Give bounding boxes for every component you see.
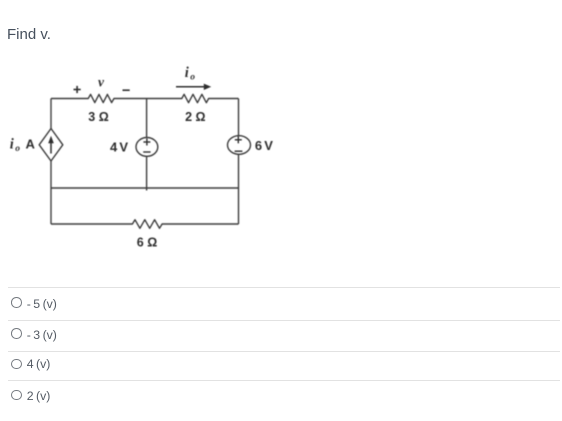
svg-text:3 Ω: 3 Ω [88, 110, 108, 124]
svg-text:6 V: 6 V [255, 138, 273, 153]
svg-text:4 V: 4 V [110, 140, 128, 155]
svg-text:o: o [190, 72, 195, 82]
svg-text:2 Ω: 2 Ω [185, 110, 205, 124]
svg-text:i: i [10, 137, 14, 153]
svg-text:6 Ω: 6 Ω [137, 235, 157, 249]
svg-text:A: A [26, 137, 36, 152]
svg-text:o: o [15, 144, 20, 154]
svg-text:v: v [98, 75, 105, 90]
svg-text:i: i [185, 65, 189, 81]
